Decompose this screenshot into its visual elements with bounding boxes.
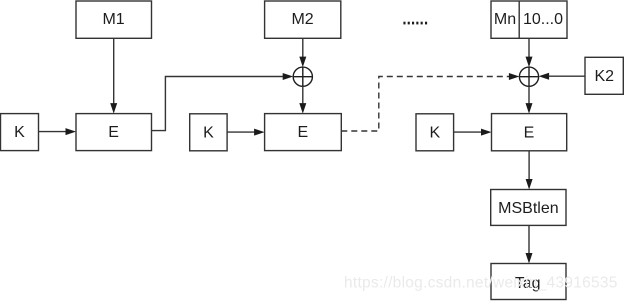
svg-text:E: E [108, 124, 119, 141]
wire E3 to MSBtlen [528, 151, 530, 180]
arrowhead into MSBtlen top [526, 179, 533, 190]
arrowhead into xor2 left [509, 73, 520, 80]
wire K2 to xor2 [548, 75, 585, 77]
box MSBtlen [491, 190, 566, 226]
svg-text:K2: K2 [595, 68, 615, 85]
wire M1 to E1 [113, 38, 115, 104]
arrowhead into Tag top [526, 253, 533, 264]
svg-text:K: K [429, 124, 440, 141]
svg-text:https://blog.csdn.net/weixin_4: https://blog.csdn.net/weixin_43916535 [344, 275, 618, 292]
svg-text:K: K [14, 124, 25, 141]
wire Mn to xor2 [528, 38, 530, 58]
wire K1 to E1 [39, 131, 67, 133]
box K2 [585, 57, 623, 94]
box E1 [76, 114, 152, 151]
divider Mn|pad [518, 1, 520, 38]
arrowhead into xor2 right [539, 73, 550, 80]
wire K second to E2 [227, 131, 255, 133]
wire K third to E3 [454, 131, 482, 133]
wire xor2 to E3 [528, 86, 530, 104]
arrowhead into xor2 top [526, 57, 533, 68]
svg-text:K: K [203, 124, 214, 141]
ellipsis dots [403, 22, 427, 25]
svg-text:M2: M2 [291, 11, 313, 28]
wire elbow E1 to xor1 [152, 77, 284, 131]
arrowhead into E2 left [254, 129, 265, 136]
svg-text:E: E [524, 124, 535, 141]
svg-text:Mn: Mn [494, 11, 516, 28]
svg-text:10...0: 10...0 [523, 11, 563, 28]
box K1 [1, 114, 39, 151]
box E3 [492, 114, 567, 151]
box K (second) [190, 114, 227, 151]
arrowhead into E1 top [110, 103, 117, 114]
box E2 [265, 114, 342, 151]
arrowhead into E1 left [66, 128, 77, 135]
arrowhead into E3 left [481, 129, 492, 136]
xor node X2 [519, 67, 538, 86]
box Tag [491, 264, 566, 300]
box K (third) [416, 114, 454, 151]
svg-text:E: E [297, 124, 308, 141]
dashed wire E2 to xor2 [341, 77, 510, 132]
xor node X1 [293, 67, 312, 86]
svg-text:MSBtlen: MSBtlen [498, 200, 558, 217]
wire xor1 to E2 [302, 86, 304, 104]
arrowhead into xor1 top [299, 57, 306, 68]
arrowhead into E3 top [526, 103, 533, 114]
wire MSBtlen to Tag [528, 225, 530, 254]
arrowhead into E2 top [299, 103, 306, 114]
box M2 [265, 1, 341, 38]
arrowhead into xor1 left [283, 73, 294, 80]
svg-text:M1: M1 [102, 11, 124, 28]
box Mn with padding [491, 1, 567, 38]
box M1 [76, 1, 152, 38]
wire M2 to xor1 [302, 38, 304, 58]
